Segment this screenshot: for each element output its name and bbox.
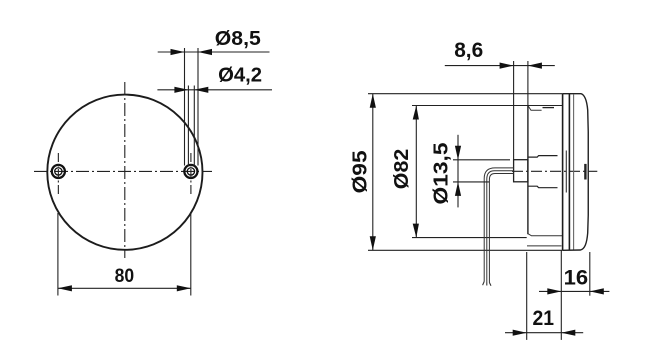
- svg-text:80: 80: [115, 265, 135, 287]
- dimension 80: dimension line: [58, 287, 191, 289]
- left mounting hole Ø8,5 outer: [52, 165, 65, 178]
- svg-text:Ø95: Ø95: [350, 150, 372, 193]
- wire 2 (middle): [487, 171, 514, 283]
- front view: lamp outer circle: [47, 95, 202, 250]
- svg-text:Ø82: Ø82: [391, 149, 413, 190]
- lens flange line 3: [573, 95, 575, 250]
- svg-text:Ø13,5: Ø13,5: [430, 143, 452, 205]
- dimension Ø13,5: top extension line: [453, 159, 510, 161]
- bulb holder tube top edge: [528, 156, 557, 158]
- left mounting hole Ø4,2 inner: [55, 168, 62, 175]
- dimension 16: right extension line: [589, 252, 591, 296]
- dimension 80: left arrow: [58, 285, 72, 291]
- dimension Ø8,5: right arrow: [198, 49, 212, 55]
- side view housing bottom edge / Ø95 extension: [368, 249, 563, 251]
- dimension 80: right extension line: [190, 212, 192, 296]
- dimension 8,6: right arrow: [528, 63, 542, 69]
- dimension Ø4,2: right extension line: [193, 86, 195, 167]
- side view drum top edge / Ø82 extension: [412, 105, 562, 107]
- dimension Ø82: bottom arrow: [413, 224, 419, 238]
- side view inner top chamfer: [528, 106, 541, 110]
- dimension 8,6: left extension line: [513, 61, 515, 160]
- dimension 8,6: right extension line: [527, 61, 529, 106]
- right mounting hole Ø4,2 inner: [187, 168, 194, 175]
- front view vertical centerline: [124, 82, 126, 258]
- dimension Ø13,5: top arrow (outside, pointing down): [455, 146, 461, 160]
- left hole vertical centerline: [57, 153, 59, 194]
- dimension Ø82: dimension line: [415, 106, 417, 238]
- lens flange line 2: [568, 94, 570, 251]
- right hole vertical centerline: [190, 153, 192, 194]
- lens centerline tick: [584, 164, 586, 180]
- dimension Ø8,5: dimension line: [158, 51, 270, 53]
- dimension 21: left extension line: [526, 252, 528, 340]
- dimension 16: dimension line: [539, 290, 609, 292]
- dimension Ø95: dimension line: [372, 94, 374, 251]
- dimension 21: left arrow (outside, pointing right): [513, 330, 527, 336]
- dimension Ø95: bottom arrow: [370, 236, 376, 250]
- dimension 21: dimension line: [505, 332, 583, 334]
- dimension Ø4,2: left arrow: [174, 87, 188, 93]
- dimension Ø8,5: right extension line: [197, 48, 199, 166]
- dimension 16: right arrow (outside, pointing left): [590, 288, 604, 294]
- right mounting hole Ø8,5 outer: [184, 165, 197, 178]
- dimension Ø13,5: dimension line: [457, 135, 459, 208]
- side view inner bottom line: [527, 245, 562, 247]
- dimension 8,6: left arrow: [500, 63, 514, 69]
- dimension Ø8,5: left extension line: [184, 48, 186, 166]
- svg-text:Ø8,5: Ø8,5: [215, 28, 261, 50]
- side view drum bottom edge / Ø82 extension: [412, 237, 527, 239]
- dimension 80: left extension line: [57, 213, 59, 296]
- dimension 16: left extension line (shared with 21): [560, 251, 562, 340]
- dimension 16: left arrow (outside, pointing right): [547, 288, 561, 294]
- dimension Ø95: top arrow: [370, 94, 376, 108]
- dimension Ø82: top arrow: [413, 106, 419, 120]
- side view drum back face: [527, 106, 529, 235]
- side view horizontal centerline: [512, 170, 597, 172]
- dimension 21: right arrow (outside, pointing left): [561, 330, 575, 336]
- side view housing top edge / Ø95 extension: [368, 93, 563, 95]
- dimension Ø13,5: bottom extension line: [453, 181, 489, 183]
- wire end feet: [483, 282, 491, 286]
- bulb holder hub: [514, 160, 528, 182]
- svg-text:21: 21: [533, 307, 555, 330]
- wire 3 (bottom): [489, 174, 513, 283]
- dimension Ø13,5: bottom arrow (outside, pointing up): [455, 182, 461, 196]
- lens flange line 1: [562, 94, 564, 251]
- dimension 8,6: dimension line: [445, 65, 555, 67]
- front view horizontal centerline: [34, 170, 212, 172]
- dimension 80: right arrow: [177, 285, 191, 291]
- dimension Ø4,2: dimension line: [157, 89, 272, 91]
- svg-text:16: 16: [564, 266, 589, 289]
- wire 1 (top): [484, 168, 513, 282]
- svg-text:Ø4,2: Ø4,2: [218, 64, 262, 86]
- lens outline: [563, 94, 589, 251]
- bulb holder tube bottom edge: [528, 186, 557, 188]
- dimension Ø4,2: right arrow: [194, 87, 208, 93]
- dimension Ø8,5: left arrow: [171, 49, 185, 55]
- dimension Ø4,2: left extension line: [187, 86, 189, 167]
- bulb outline: [565, 151, 567, 193]
- side view inner bottom chamfer: [528, 234, 562, 236]
- svg-text:8,6: 8,6: [454, 39, 483, 62]
- side view inner top shelf line: [543, 107, 555, 109]
